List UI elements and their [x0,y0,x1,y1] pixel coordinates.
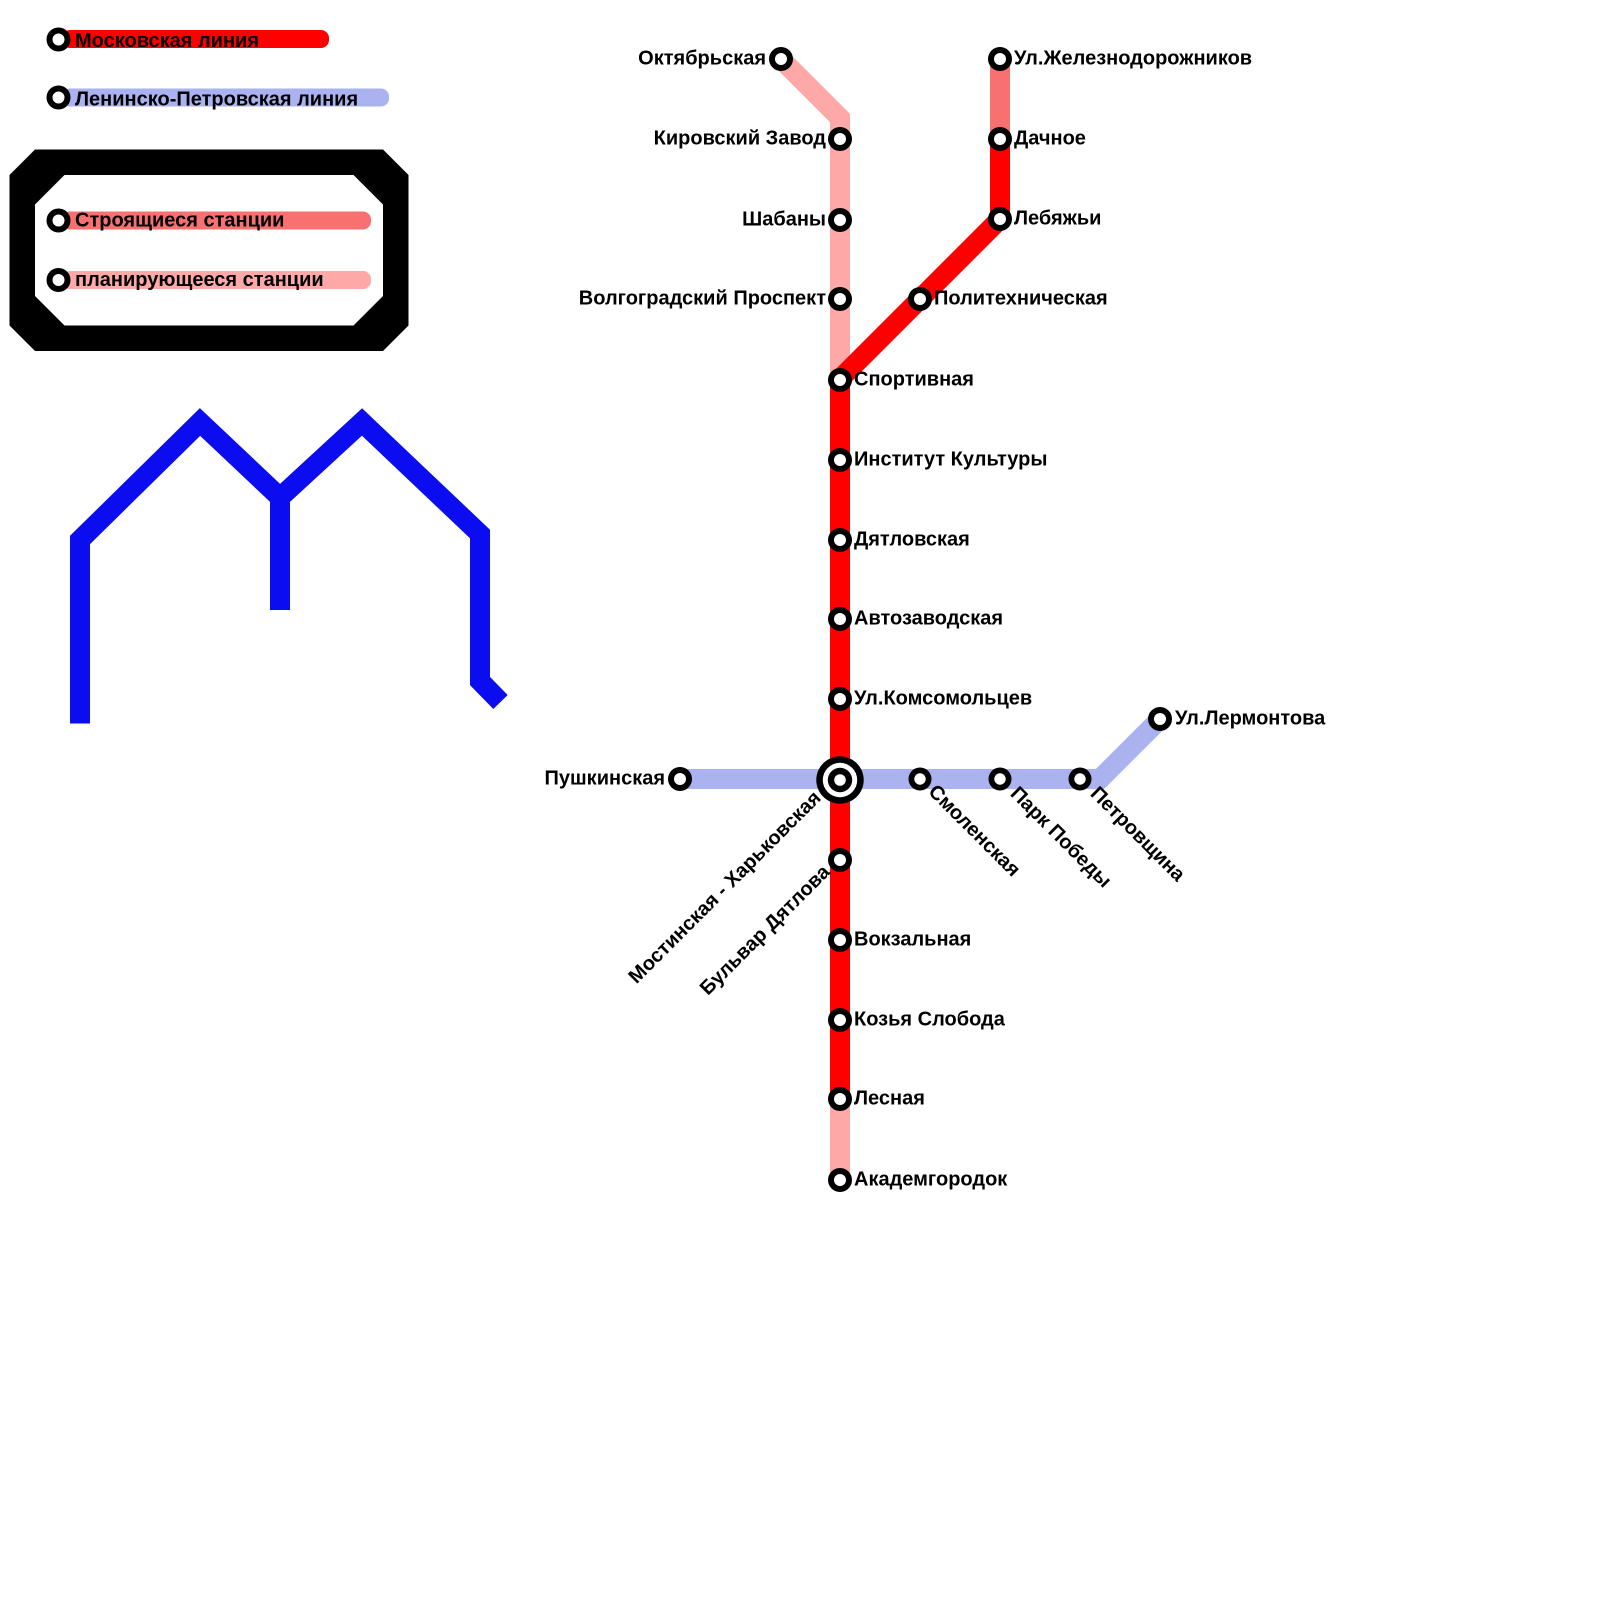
station Vokzalnaya [828,928,852,952]
svg-text:Строящиеся станции: Строящиеся станции [75,210,284,232]
svg-text:Лебяжьи: Лебяжьи [1014,208,1101,230]
station Lebyazhyi [988,207,1012,231]
legend box black octagon frame [10,150,409,352]
legend: Moscow line red bar [62,30,329,48]
svg-text:Волгоградский Проспект: Волгоградский Проспект [579,288,826,310]
legend: under-construction station circle [47,209,71,233]
blue Leninsko-Petrovskaya line [680,719,1160,779]
svg-text:Кировский Завод: Кировский Завод [654,128,827,150]
svg-text:Политехническая: Политехническая [934,288,1108,310]
station Politekhnicheskaya [908,287,932,311]
svg-text:Ул.Комсомольцев: Ул.Комсомольцев [854,688,1032,710]
legend: Leninsko-Petrovskaya station circle [47,86,71,110]
station Dyatlovskaya [828,528,852,552]
under construction: Zheleznodorozhnikov to Dachnoye [990,59,1010,139]
planned line: Oktyabrskaya to Sportivnaya [781,59,840,380]
station Park Pobedy [989,768,1012,791]
metro M logo [80,422,501,724]
planned line: Lesnaya to Akademgorodok [830,1099,850,1180]
svg-text:Спортивная: Спортивная [854,369,974,391]
svg-text:Дачное: Дачное [1014,128,1086,150]
station Lesnaya [828,1087,852,1111]
station Akademgorodok [828,1168,852,1192]
legend: planned station circle [47,268,71,292]
svg-text:Институт Культуры: Институт Культуры [854,449,1047,471]
station Zheleznodorozhnikov [988,47,1012,71]
station Kozya Sloboda [828,1008,852,1032]
svg-text:Дятловская: Дятловская [854,529,970,551]
svg-text:Вокзальная: Вокзальная [854,929,971,951]
legend: Moscow line station circle [47,28,71,52]
svg-text:Козья Слобода: Козья Слобода [854,1009,1006,1031]
station Lermontova [1148,707,1172,731]
svg-text:Академгородок: Академгородок [854,1169,1008,1191]
legend: under-construction bar [62,212,371,230]
station Kirovsky Zavod [828,127,852,151]
station Sportivnaya [828,368,852,392]
svg-text:Автозаводская: Автозаводская [854,608,1003,630]
station Pushkinskaya [668,767,692,791]
legend: Leninsko-Petrovskaya line blue bar [62,89,389,107]
svg-text:Лесная: Лесная [854,1088,925,1110]
station Avtozavodskaya [828,607,852,631]
legend: planned bar [62,271,371,289]
red Moscow line [840,139,1000,1099]
station Smolenskaya [909,768,932,791]
station Shabany [828,208,852,232]
svg-text:Пушкинская: Пушкинская [545,768,665,790]
station Komsomoltsev [828,687,852,711]
station Institut Kultury [828,448,852,472]
metro M logo middle stem [270,498,290,611]
svg-text:Ул.Лермонтова: Ул.Лермонтова [1175,708,1326,730]
station Petrovshchina [1069,768,1092,791]
svg-text:Шабаны: Шабаны [742,209,826,231]
interchange station hub [816,756,863,803]
svg-text:Ул.Железнодорожников: Ул.Железнодорожников [1014,48,1252,70]
svg-text:Ленинско-Петровская линия: Ленинско-Петровская линия [75,89,358,111]
station Volgogradsky Prospekt [828,287,852,311]
svg-text:планирующееся станции: планирующееся станции [75,269,324,291]
station Oktyabrskaya [769,47,793,71]
station Dachnoye [988,127,1012,151]
svg-text:Октябрьская: Октябрьская [638,48,766,70]
svg-text:Московская линия: Московская линия [75,30,259,52]
station Bulvar Dyatlova [828,848,852,872]
